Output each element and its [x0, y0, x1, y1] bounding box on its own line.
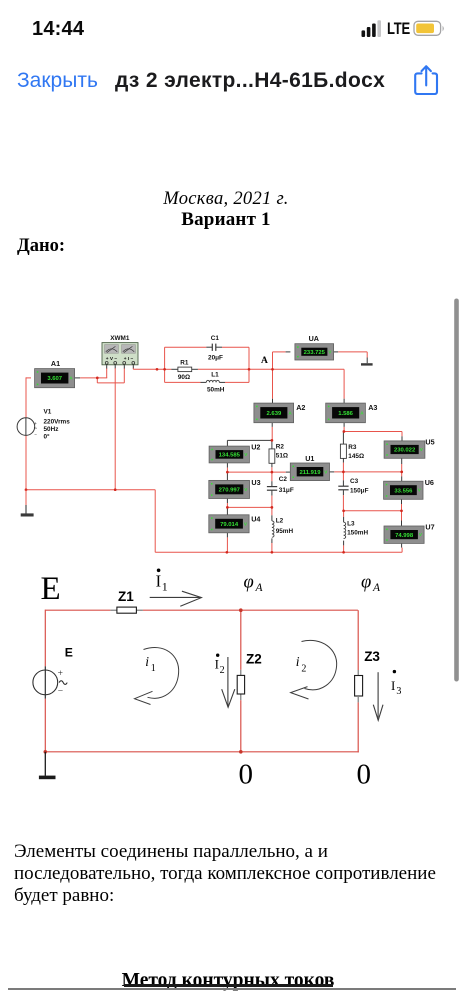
junction (top middle node) — [239, 608, 243, 612]
junction — [163, 368, 166, 371]
svg-text:C1: C1 — [211, 335, 220, 342]
svg-text:150mH: 150mH — [347, 530, 368, 537]
wire: U7 top lead — [401, 511, 403, 526]
wire: U7 bottom lead — [401, 543, 404, 552]
voltmeter U4 — [209, 515, 261, 533]
capacitor C2 31uF — [267, 476, 294, 494]
junction — [248, 368, 251, 371]
wire: A3 top lead — [343, 399, 345, 403]
source E (circle) — [33, 666, 67, 698]
wire: L1 bottom branch — [165, 381, 249, 383]
junction — [156, 368, 159, 371]
svg-text:3.607: 3.607 — [47, 376, 62, 382]
wire: block left vertical — [164, 347, 166, 382]
current I1 label and arrow — [150, 569, 202, 607]
nav share icon — [413, 63, 440, 97]
svg-text:0: 0 — [357, 758, 372, 790]
svg-text:50Hz: 50Hz — [44, 426, 59, 433]
svg-text:A2: A2 — [296, 403, 305, 412]
wire: bottom rail left (y=489.7) — [26, 489, 156, 491]
junction — [114, 488, 117, 491]
svg-text:UA: UA — [309, 334, 319, 343]
svg-text:A: A — [261, 356, 268, 366]
junction — [343, 430, 346, 433]
svg-text:A: A — [255, 582, 264, 594]
svg-text:3: 3 — [396, 686, 401, 697]
ground symbol — [39, 752, 56, 779]
svg-text:79.014: 79.014 — [220, 522, 239, 528]
junction — [226, 506, 229, 509]
svg-text:230.022: 230.022 — [394, 448, 416, 454]
status bar battery — [413, 20, 447, 37]
wire: U3 top lead — [226, 472, 228, 480]
svg-text:270.997: 270.997 — [219, 488, 241, 494]
svg-text:2: 2 — [220, 665, 225, 676]
svg-text:U6: U6 — [425, 478, 434, 487]
wire: C3 leads — [342, 472, 344, 511]
wire: L3 leads — [343, 511, 345, 553]
junction — [271, 471, 274, 474]
wire: U6 bottom lead — [401, 499, 403, 511]
svg-text:90Ω: 90Ω — [178, 374, 190, 381]
wire: A1 right to XWM1 V+ — [75, 364, 108, 378]
wire: bottom rail (y=552.3) — [155, 551, 402, 553]
wire: U4 top lead — [226, 507, 228, 514]
impedance Z2 — [237, 651, 262, 694]
svg-text:E: E — [65, 646, 73, 660]
wire: U2 bottom lead — [226, 463, 228, 472]
resistor R3 145ohm — [340, 444, 364, 460]
resistor R1 90ohm — [171, 359, 198, 381]
svg-text:V1: V1 — [44, 409, 52, 416]
svg-text:U7: U7 — [425, 523, 434, 532]
junction — [400, 471, 403, 474]
wire: node A down to A2 — [272, 369, 274, 403]
node 0 label (right) — [357, 758, 372, 790]
svg-text:φ: φ — [361, 573, 371, 593]
wire: node C line to U5 — [343, 432, 402, 441]
loop current i2 arc — [291, 640, 337, 699]
svg-text:I: I — [391, 678, 395, 693]
junction — [271, 506, 274, 509]
wire: A1 left to V1 branch — [26, 377, 31, 418]
nav title — [115, 69, 385, 93]
inductor L3 150mH — [344, 520, 369, 538]
svg-text:31μF: 31μF — [279, 487, 294, 494]
impedance Z3 — [355, 649, 381, 696]
wire: A3 bottom to node C — [343, 423, 345, 432]
inductor L1 50mH — [201, 371, 226, 393]
svg-text:A3: A3 — [368, 403, 377, 412]
wire: R3 leads — [342, 432, 344, 472]
svg-text:220Vrms: 220Vrms — [44, 419, 71, 426]
ground (UA branch) — [361, 363, 373, 365]
wire: R1 middle branch to node A and A3 drop — [165, 369, 345, 398]
status bar time — [32, 18, 84, 41]
svg-text:150μF: 150μF — [350, 487, 369, 494]
junction (bottom middle node) — [239, 750, 243, 754]
nav close button — [17, 69, 98, 93]
svg-text:51Ω: 51Ω — [276, 452, 288, 459]
svg-text:33.556: 33.556 — [394, 488, 413, 494]
wire: U2 top lead (bent) — [227, 440, 272, 446]
junction — [25, 488, 28, 491]
paragraph — [14, 841, 436, 907]
bottom heading with strikethrough — [122, 970, 335, 992]
svg-text:R2: R2 — [276, 444, 285, 451]
svg-text:C2: C2 — [279, 476, 288, 483]
wire: bottom rail — [45, 751, 359, 753]
svg-text:L1: L1 — [211, 371, 219, 378]
svg-text:A: A — [372, 582, 381, 594]
loop current i1 arc — [135, 648, 179, 705]
wire: U6 top lead — [401, 472, 403, 481]
wire: C2 leads — [271, 472, 273, 507]
svg-text:Z3: Z3 — [364, 649, 380, 664]
capacitor C3 150uF — [338, 478, 368, 494]
voltmeter U3 — [209, 478, 261, 499]
svg-text:145Ω: 145Ω — [348, 453, 364, 460]
svg-text:−: − — [58, 687, 63, 697]
svg-text:134.585: 134.585 — [219, 453, 241, 459]
wire: rail drop x=155.2 — [154, 490, 156, 553]
junction — [226, 471, 229, 474]
svg-text:1: 1 — [151, 663, 156, 674]
wattmeter XWM1 — [102, 335, 138, 365]
svg-text:U1: U1 — [305, 454, 314, 463]
svg-text:L2: L2 — [276, 517, 284, 524]
svg-text:i: i — [296, 654, 300, 669]
svg-text:I: I — [215, 656, 219, 671]
status bar signal bars — [361, 19, 385, 38]
svg-text:U2: U2 — [251, 442, 260, 451]
node A label — [261, 356, 268, 366]
svg-text:φ: φ — [244, 573, 254, 593]
wire: left branch vertical — [44, 610, 46, 753]
capacitor C1 20uF — [206, 335, 223, 362]
svg-text:1.586: 1.586 — [338, 411, 353, 417]
wire: node B mid line to U1 — [227, 471, 290, 473]
svg-text:R3: R3 — [348, 444, 357, 451]
svg-text:+ I −: + I − — [124, 356, 134, 362]
junction — [96, 377, 99, 380]
wire: U3 bottom lead — [226, 499, 228, 508]
junction — [342, 471, 345, 474]
label E (source) — [65, 646, 73, 660]
svg-text:U3: U3 — [251, 478, 260, 487]
svg-text:74.998: 74.998 — [395, 533, 414, 539]
svg-text:50mH: 50mH — [207, 386, 225, 393]
wire: XWM1 I- to RLC block — [133, 364, 164, 369]
svg-text:2: 2 — [301, 664, 306, 675]
wire: U5 bottom lead — [401, 458, 403, 472]
doc heading: Variant 1 — [181, 209, 271, 231]
wire: XWM1 I+ down to rail — [114, 364, 116, 489]
voltmeter U2 — [209, 442, 260, 463]
doc heading: Moscow 2021 — [163, 189, 288, 210]
junction — [226, 551, 229, 554]
node 0 label (middle) — [239, 758, 254, 790]
svg-text:I: I — [156, 571, 162, 590]
junction — [271, 368, 274, 371]
ground (V1 branch) — [21, 490, 34, 517]
doc heading: Dano — [17, 236, 65, 257]
svg-text:E: E — [41, 571, 61, 607]
wire: mid-right line U1 to U5/U6 — [330, 471, 402, 473]
svg-text:−: − — [34, 432, 37, 437]
label phiA (right) — [361, 573, 381, 594]
svg-text:R1: R1 — [180, 359, 189, 366]
svg-text:U4: U4 — [251, 515, 260, 524]
voltmeter U5 — [384, 438, 435, 459]
wire: lower-left line — [227, 506, 272, 508]
ammeter A2 — [254, 403, 306, 423]
wire: lower-right line — [344, 510, 402, 512]
wire: U4 bottom lead — [226, 533, 228, 553]
wire: A2 bottom to node B — [271, 423, 273, 441]
wire: UA right to ground — [334, 352, 368, 363]
wire: right branch vertical (Z3) — [357, 610, 359, 752]
svg-text:2.639: 2.639 — [267, 411, 282, 417]
junction — [271, 439, 274, 442]
junction (bottom left node) — [44, 750, 48, 754]
voltmeter UA — [295, 334, 334, 360]
svg-text:211.919: 211.919 — [300, 470, 322, 476]
wire: R2 leads — [271, 440, 273, 472]
scrollbar — [454, 299, 459, 682]
svg-text:A1: A1 — [51, 359, 60, 368]
junction — [271, 551, 274, 554]
strikethrough over bottom heading — [124, 984, 333, 986]
junction — [342, 551, 345, 554]
wire: C1 top branch — [165, 346, 249, 348]
current I2 label and arrow — [215, 654, 235, 708]
svg-text:20μF: 20μF — [208, 355, 223, 362]
svg-text:+: + — [58, 669, 63, 679]
wire: block right vertical — [248, 347, 250, 382]
resistor R2 51ohm — [269, 444, 288, 464]
bottom gray rule — [8, 988, 456, 991]
current I3 label and arrow — [373, 670, 401, 720]
svg-text:U5: U5 — [425, 438, 434, 447]
wire: V1 bottom to ground rail — [25, 435, 27, 490]
label E (big serif) — [41, 571, 61, 607]
voltmeter U7 — [384, 523, 435, 544]
svg-text:233.725: 233.725 — [304, 350, 326, 356]
voltmeter U6 — [384, 478, 434, 499]
wire: middle branch vertical (Z2) — [240, 610, 242, 752]
ammeter A3 — [326, 403, 378, 423]
junction — [342, 509, 345, 512]
junction — [400, 509, 403, 512]
label phiA (middle) — [244, 573, 264, 594]
wire: jog to XWM1 V- — [97, 364, 124, 383]
wire: top rail E to phiA right — [45, 609, 358, 611]
svg-text:C3: C3 — [350, 478, 359, 485]
svg-text:1: 1 — [162, 580, 168, 594]
svg-text:0: 0 — [239, 758, 254, 790]
svg-text:Z1: Z1 — [118, 589, 134, 604]
status bar LTE — [387, 20, 410, 39]
wire: node A up to UA — [273, 352, 291, 370]
svg-text:95mH: 95mH — [276, 528, 294, 535]
ac source V1 — [17, 409, 70, 441]
wire: L2 leads — [271, 507, 273, 552]
ammeter A1 — [35, 359, 75, 388]
svg-text:Z2: Z2 — [246, 651, 262, 666]
voltmeter U1 — [290, 454, 329, 480]
svg-text:i: i — [145, 654, 149, 669]
svg-text:L3: L3 — [347, 520, 355, 527]
impedance Z1 — [110, 589, 142, 613]
svg-text:XWM1: XWM1 — [110, 335, 130, 342]
inductor L2 95mH — [272, 517, 294, 537]
svg-text:0°: 0° — [44, 433, 51, 441]
